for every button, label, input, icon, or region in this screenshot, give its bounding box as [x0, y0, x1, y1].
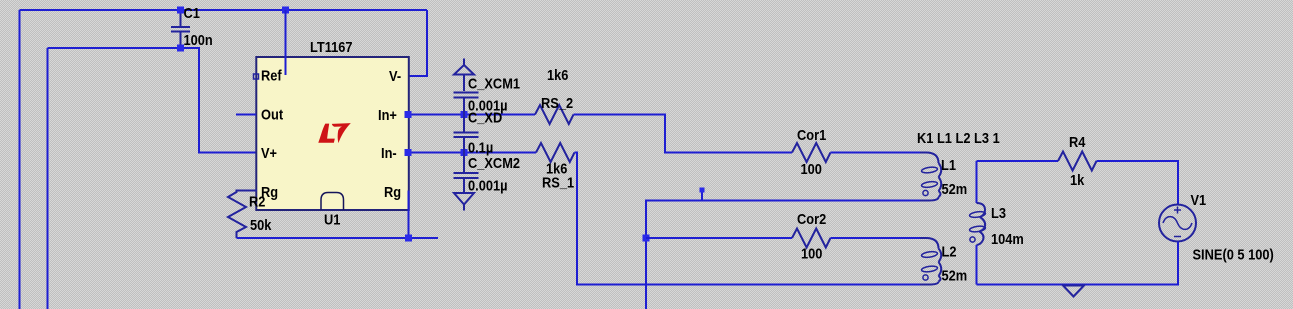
wire right Rg down: [408, 191, 410, 240]
wire Ref from top net: [285, 10, 287, 75]
wire V1 bottom: [977, 242, 1179, 285]
junction top wire Ref branch: [282, 7, 289, 14]
svg-text:Cor2: Cor2: [797, 211, 826, 228]
svg-text:100: 100: [801, 161, 822, 178]
wire loop top right: [1097, 161, 1179, 205]
junction In- pin: [405, 149, 412, 156]
wire L1 out to Cor2 junction: [646, 201, 920, 309]
junction In- cap tap: [461, 149, 468, 156]
junction In+ pin: [405, 111, 412, 118]
op-amp notch dome: [321, 193, 344, 211]
svg-text:V+: V+: [261, 145, 277, 162]
svg-text:RS_2: RS_2: [541, 95, 573, 112]
svg-text:1k: 1k: [1070, 172, 1085, 189]
resistor R4: [1058, 152, 1096, 171]
svg-text:100n: 100n: [184, 32, 213, 49]
svg-text:K1 L1 L2 L3 1: K1 L1 L2 L3 1: [917, 130, 1000, 147]
resistor R2: [228, 191, 257, 239]
svg-text:R4: R4: [1069, 134, 1086, 151]
wire In- net: [409, 152, 536, 154]
svg-text:C_XCM2: C_XCM2: [468, 155, 520, 172]
ground at loop bottom: [1063, 286, 1084, 297]
wire left inner vertical: [47, 48, 49, 309]
wire top horizontal net: [20, 9, 428, 11]
resistor RS_1: [536, 143, 574, 162]
ground below C_XCM2: [454, 193, 474, 211]
wire RS_2 out to Cor1 row: [574, 115, 793, 153]
wire loop top left: [977, 160, 1059, 162]
capacitor C_XCM2: [454, 153, 479, 193]
svg-text:C_XD: C_XD: [468, 110, 502, 127]
capacitor C_XD: [454, 115, 479, 153]
capacitor C_XCM1: [454, 93, 479, 115]
junction In+ cap tap: [461, 111, 468, 118]
svg-text:52m: 52m: [942, 268, 968, 285]
svg-text:RS_1: RS_1: [542, 175, 574, 192]
svg-text:104m: 104m: [991, 231, 1024, 248]
svg-text:1k6: 1k6: [547, 67, 568, 84]
inductor L1: [920, 153, 941, 201]
svg-text:Cor1: Cor1: [797, 127, 826, 144]
op-amp U1 LT1167 body: [256, 57, 409, 210]
svg-text:Out: Out: [261, 107, 283, 124]
op-amp LT logo: [318, 123, 351, 143]
svg-text:0.1µ: 0.1µ: [468, 140, 493, 157]
svg-text:52m: 52m: [942, 181, 968, 198]
svg-text:LT1167: LT1167: [310, 39, 353, 56]
svg-text:50k: 50k: [250, 217, 272, 234]
inductor L3: [969, 203, 986, 245]
voltage source V1: [1159, 205, 1196, 242]
wire L3 bottom vertical: [976, 245, 978, 285]
resistor Cor1: [792, 143, 830, 162]
svg-text:L2: L2: [942, 244, 957, 261]
inductor L2: [920, 238, 941, 285]
resistor RS_2: [535, 105, 573, 124]
wire Cor2 out to L2: [831, 237, 922, 239]
junction C1 top: [177, 7, 184, 14]
wire R2 bottom net: [237, 237, 439, 239]
svg-text:100: 100: [801, 246, 822, 263]
wire C1 bottom to V+: [48, 48, 257, 153]
svg-text:U1: U1: [324, 212, 340, 229]
ground flipped above C_XCM1: [454, 59, 474, 92]
pin Ref open square: [254, 74, 259, 79]
svg-text:L1: L1: [941, 157, 956, 174]
svg-text:0.001µ: 0.001µ: [468, 178, 508, 195]
junction Cor2 branch: [643, 235, 650, 242]
svg-text:Ref: Ref: [261, 68, 283, 85]
svg-text:C_XCM1: C_XCM1: [468, 76, 520, 93]
svg-text:V1: V1: [1191, 192, 1207, 209]
svg-text:In+: In+: [378, 107, 397, 124]
junction C1 bottom: [177, 45, 184, 52]
svg-text:SINE(0 5 100): SINE(0 5 100): [1193, 247, 1274, 264]
wire left outer vertical: [19, 10, 21, 309]
capacitor C1: [171, 10, 190, 48]
wire Cor2 net left: [646, 237, 792, 239]
svg-text:Rg: Rg: [384, 184, 401, 201]
resistor Cor2: [792, 229, 830, 248]
svg-text:C1: C1: [184, 5, 200, 22]
svg-text:V-: V-: [389, 68, 401, 85]
node stub on L1 net: [701, 190, 703, 201]
wire V- pin: [409, 10, 427, 76]
svg-text:R2: R2: [249, 194, 265, 211]
wire L3 branch vertical: [976, 161, 978, 203]
svg-text:L3: L3: [991, 205, 1006, 222]
wire RS_1 out down to bottom net: [575, 153, 931, 285]
wire In+ net: [409, 114, 535, 116]
wire Cor1 out to L1: [831, 152, 922, 154]
junction Rg bottom: [405, 235, 412, 242]
wire Out stub: [236, 114, 256, 116]
svg-text:In-: In-: [381, 145, 397, 162]
